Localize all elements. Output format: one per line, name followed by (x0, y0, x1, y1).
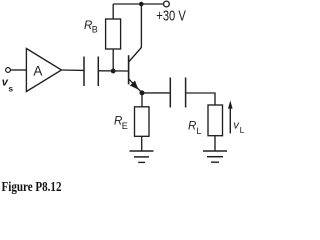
svg-text:+30 V: +30 V (156, 9, 186, 25)
svg-text:L: L (240, 125, 245, 135)
svg-text:R: R (188, 121, 196, 133)
svg-text:E: E (122, 121, 128, 131)
svg-text:A: A (33, 64, 42, 79)
svg-text:Figure P8.12: Figure P8.12 (2, 179, 62, 194)
svg-text:s: s (8, 83, 13, 93)
svg-text:B: B (92, 25, 98, 35)
svg-text:L: L (196, 126, 201, 136)
